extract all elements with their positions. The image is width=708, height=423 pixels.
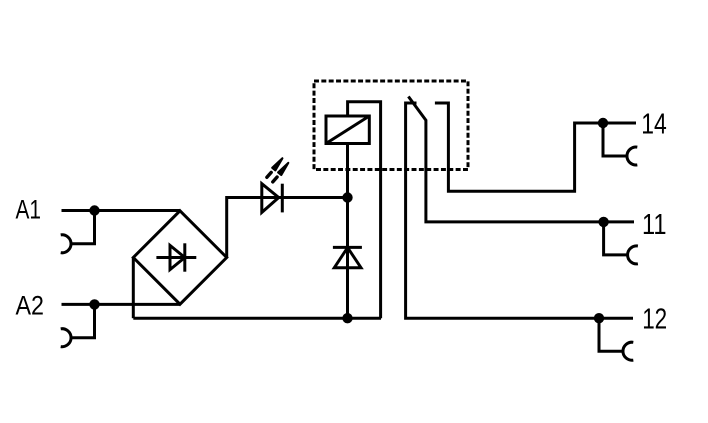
node 12 junction [594,313,604,323]
contact NC leg to 12 [406,103,633,318]
wire bottom rail [133,317,381,320]
wire junction to bottom rail [346,198,349,319]
relay coil K1 [326,116,369,144]
svg-text:A2: A2 [16,291,45,321]
contact NO leg to 14 [435,103,636,191]
diode D2 flyback [333,246,362,249]
terminal clamp A1 [71,211,95,244]
svg-text:11: 11 [642,209,667,241]
terminal clamp 12 [599,318,623,351]
wire coil top return [348,102,381,319]
wire left vertex drop [132,258,135,319]
switch blade [408,97,634,222]
terminal clamp 11 [604,222,628,255]
svg-text:14: 14 [641,109,667,141]
LED arrow 2 [273,177,277,182]
node A2 junction [89,299,99,309]
relay boundary dashed box [314,81,468,170]
node A1 junction [89,205,99,215]
node 14 junction [598,118,608,128]
node bottom rail junction [342,313,352,323]
LED D1 [262,196,348,199]
LED arrow 1 [267,172,271,177]
bridge diode symbol [156,256,196,259]
svg-text:A1: A1 [16,195,42,225]
terminal clamp 14 [603,123,627,156]
node LED junction [342,192,352,202]
node 11 junction [598,217,608,227]
svg-text:12: 12 [642,304,667,336]
wire A1 horizontal [62,209,181,212]
wire right vertex riser [227,198,262,258]
wire junction to coil [346,144,349,198]
bridge rectifier diamond [133,211,226,304]
wire A2 horizontal [62,303,181,306]
terminal clamp A2 [71,304,95,337]
